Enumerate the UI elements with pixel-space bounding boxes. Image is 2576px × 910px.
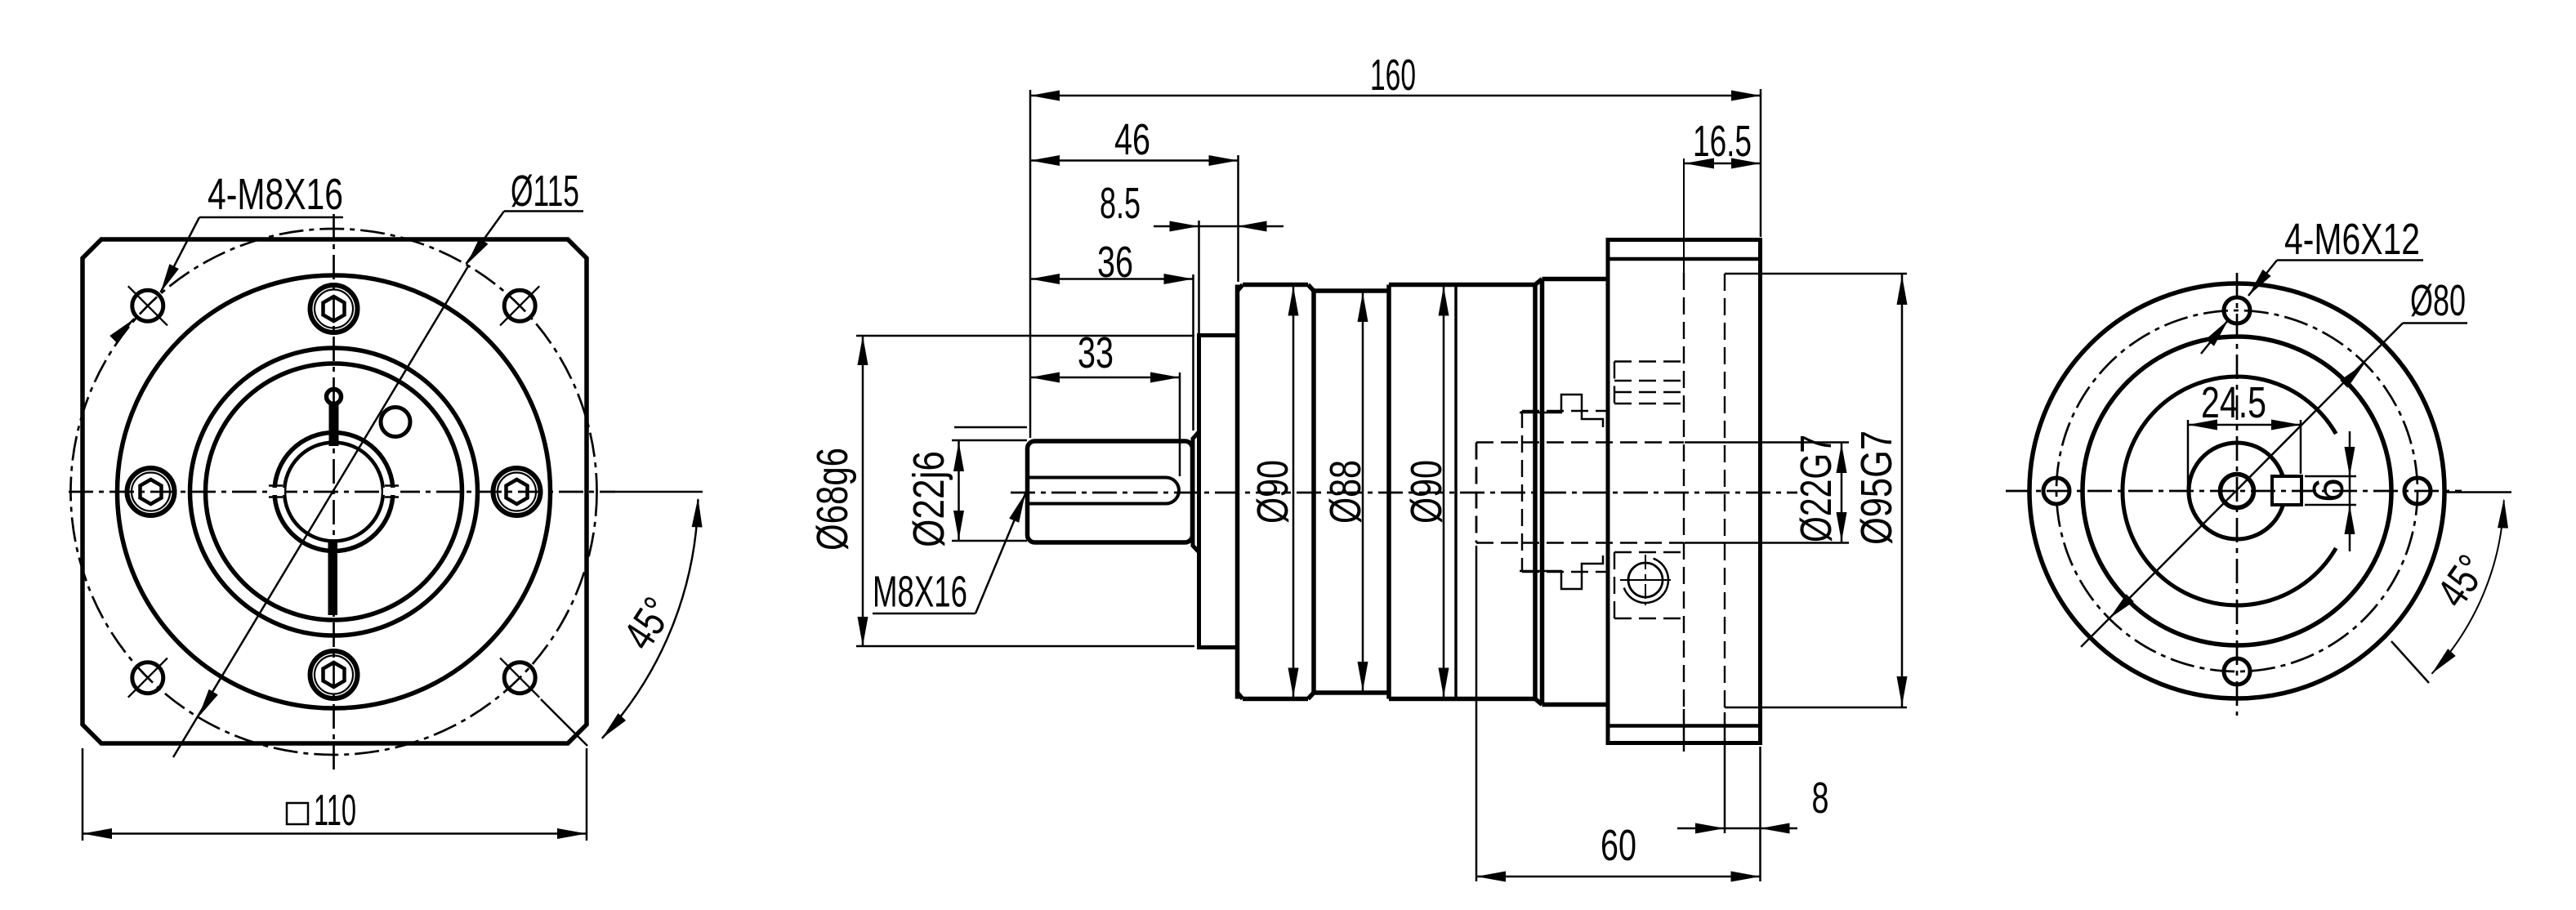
front view vertical centerline bbox=[333, 214, 335, 769]
dim 8 ext left bbox=[1724, 712, 1726, 833]
flange circle bbox=[190, 348, 478, 636]
dim 8.5 ext left bbox=[1198, 221, 1200, 333]
front view square flange outline bbox=[83, 239, 587, 743]
45deg right arrow top bbox=[2498, 498, 2508, 528]
rear keyway square bbox=[2272, 476, 2301, 505]
rear flange outline bbox=[1608, 240, 1761, 743]
shaft keyway round end bbox=[1166, 478, 1179, 504]
side view axis centerline bbox=[1011, 492, 1797, 494]
right clamp notch lines bbox=[385, 484, 399, 487]
hidden bore line bottom bbox=[1522, 542, 1684, 543]
M6 hole S bbox=[2224, 658, 2250, 685]
svg-text:6: 6 bbox=[2304, 478, 2353, 502]
dim 33 ext right bbox=[1179, 372, 1181, 476]
dim phi22 ext top bbox=[952, 439, 1027, 442]
section step line top bbox=[1520, 395, 1603, 427]
square symbol bbox=[287, 803, 308, 824]
rear circle phi50 (broken at keyway side) bbox=[2123, 377, 2336, 605]
section step line bottom bbox=[1520, 555, 1603, 589]
hex socket screw S bbox=[310, 651, 358, 698]
rear outer circle bbox=[2029, 283, 2444, 698]
bolt circle phi115 (dash-dot) bbox=[71, 229, 597, 755]
svg-text:Ø68g6: Ø68g6 bbox=[808, 448, 857, 551]
dim 110 arrow left bbox=[83, 828, 112, 839]
recess line bottom bbox=[1725, 707, 1907, 709]
dim 160 line bbox=[1030, 95, 1761, 97]
4-M6X12 leader bbox=[2248, 261, 2277, 297]
ring section bottom bbox=[1542, 703, 1609, 707]
M8 tapped hole bottom-right bbox=[504, 662, 535, 694]
clamp slot bottom (filled) bbox=[328, 542, 338, 615]
clamp screw thread arc bbox=[1624, 559, 1668, 603]
hidden slot lines bottom bbox=[1614, 551, 1684, 553]
45deg right arrow bottom bbox=[2431, 649, 2455, 674]
body section 1 phi90 top bbox=[1243, 283, 1308, 288]
dim phi22G7 line bbox=[1841, 443, 1843, 543]
body section 2 phi90 bottom bbox=[1389, 697, 1535, 702]
45deg right dim arc bbox=[2431, 500, 2503, 673]
dim 160 ext left bbox=[1029, 90, 1032, 438]
4-M8X16 second arrow tail bbox=[121, 319, 134, 332]
svg-text:160: 160 bbox=[1370, 51, 1416, 100]
4-M8X16 arrow at hole bbox=[161, 264, 179, 292]
shaft shoulder ring bbox=[1193, 432, 1199, 553]
dim 16.5 line bbox=[1685, 163, 1761, 165]
hidden recess bottom vertical bbox=[1724, 274, 1726, 707]
dim 24.5 ext left bbox=[2187, 420, 2190, 488]
dim phi22 line bbox=[958, 440, 960, 541]
svg-text:Ø88: Ø88 bbox=[1321, 460, 1370, 524]
left clamp notch gap bbox=[267, 488, 284, 495]
svg-text:Ø95G7: Ø95G7 bbox=[1852, 430, 1901, 545]
dim phi22 ext bottom bbox=[952, 540, 1027, 542]
phi115 dim arrow lower bbox=[199, 689, 218, 717]
step chamfer 1 bottom bbox=[1308, 693, 1314, 699]
svg-text:4-M8X16: 4-M8X16 bbox=[208, 170, 343, 219]
45deg right ext radial bbox=[2391, 641, 2429, 683]
45deg arc arrow top bbox=[692, 497, 703, 527]
step face 2 bbox=[1386, 285, 1391, 699]
dim 60 line bbox=[1476, 876, 1761, 878]
45deg ext line radial bbox=[541, 699, 587, 746]
dim 36 line bbox=[1030, 278, 1194, 280]
dim 60 ext right bbox=[1759, 747, 1761, 881]
clamp slot top (filled) bbox=[329, 404, 339, 446]
gearbox front face bbox=[1235, 285, 1240, 699]
body groove phi88 top bbox=[1314, 288, 1389, 293]
right clamp notch gap bbox=[383, 488, 400, 495]
hidden collar bottom bbox=[1522, 571, 1608, 573]
hidden hub top bbox=[1476, 441, 1522, 443]
4-M6X12 arrow bbox=[2248, 270, 2271, 296]
hex socket screw N bbox=[310, 285, 358, 332]
4-M6X12 underline bbox=[2277, 259, 2423, 261]
phi80 diameter dim line bbox=[2081, 323, 2403, 647]
dim 6 ext bottom bbox=[2305, 504, 2356, 506]
M8 tapped hole top-left bbox=[132, 290, 163, 321]
rear center hole bbox=[2221, 475, 2254, 508]
rear circle phi68 bbox=[2083, 337, 2391, 645]
output shaft phi22 bbox=[1028, 441, 1193, 542]
hidden hub bottom bbox=[1476, 542, 1522, 543]
dim 16.5 arrows bbox=[1685, 158, 1714, 169]
dim 46 ext right bbox=[1237, 155, 1239, 282]
phi80 arrow lower bbox=[2109, 594, 2134, 618]
dim phi22G7 arrows bbox=[1837, 444, 1847, 473]
45deg arc arrow bottom bbox=[602, 713, 626, 738]
hidden collar vertical bbox=[1521, 411, 1523, 572]
dim phi68 arrows bbox=[858, 336, 868, 365]
dim phi22G7 ext bottom bbox=[1685, 542, 1849, 544]
ring section face bbox=[1540, 279, 1545, 705]
4-M8X16 second arrow bbox=[109, 319, 134, 343]
clamp screw hole bbox=[381, 408, 410, 437]
M6 hole N bbox=[2224, 297, 2250, 323]
hex socket screw E bbox=[493, 468, 541, 515]
hidden bore line top bbox=[1522, 441, 1684, 443]
dim 24.5 ext right bbox=[2300, 420, 2302, 474]
output bore inner circle bbox=[284, 443, 383, 542]
ring chamfer top bbox=[1535, 279, 1542, 285]
dim 8 arrows bbox=[1695, 823, 1725, 834]
rear view horizontal centerline bbox=[2006, 490, 2462, 493]
45deg ext line horizontal bbox=[615, 491, 703, 493]
dim 8.5 line bbox=[1154, 225, 1284, 228]
dim &#216;88 arrows bbox=[1358, 292, 1368, 322]
rear view vertical centerline bbox=[2236, 273, 2239, 716]
M6 hole W bbox=[2043, 478, 2069, 504]
front view horizontal centerline bbox=[69, 491, 615, 493]
rear flange chamfer line top bbox=[1608, 257, 1761, 261]
hex socket screw W bbox=[127, 468, 175, 515]
phi115 diameter dim line bbox=[173, 266, 468, 757]
svg-text:36: 36 bbox=[1097, 238, 1133, 287]
hidden slot verticals bottom bbox=[1614, 552, 1615, 618]
phi80 underline bbox=[2403, 322, 2467, 324]
ring section top bbox=[1542, 277, 1609, 282]
4-M8X16 label underline bbox=[199, 216, 343, 219]
svg-text:Ø22G7: Ø22G7 bbox=[1792, 435, 1841, 542]
dim 8.5 arrows bbox=[1170, 221, 1199, 232]
dim 24.5 line bbox=[2188, 424, 2301, 426]
hidden slot verticals top bbox=[1614, 362, 1615, 404]
dim 60 ext left bbox=[1476, 546, 1478, 881]
body section 1 phi90 bottom bbox=[1243, 697, 1308, 702]
dim 110 ext line left bbox=[82, 748, 84, 841]
4-M6X12 second arrow bbox=[2206, 320, 2229, 346]
dim 110 ext line right bbox=[586, 748, 588, 841]
svg-text:16.5: 16.5 bbox=[1693, 117, 1752, 166]
dim phi22 ext aux bbox=[954, 426, 1027, 429]
dim 8 line bbox=[1677, 827, 1797, 830]
front spigot phi68g6 bbox=[1199, 336, 1238, 648]
dim 110 arrow right bbox=[557, 828, 587, 839]
dim 160 arrows bbox=[1030, 91, 1060, 101]
M8X16 arrow bbox=[1009, 493, 1025, 523]
M6 hole E bbox=[2404, 478, 2431, 504]
dim 36 ext right bbox=[1192, 274, 1194, 430]
motor face line bbox=[1683, 158, 1685, 273]
dim 46 arrows bbox=[1030, 155, 1060, 166]
M8X16 leader bbox=[975, 494, 1025, 614]
phi115 dim arrow upper bbox=[467, 238, 488, 265]
pin hole above slot bbox=[327, 390, 342, 404]
outer housing circle phi95 bbox=[118, 275, 551, 708]
M8 tapped hole top-right bbox=[504, 290, 535, 321]
dim &#216;88 line bbox=[1362, 291, 1364, 693]
rear bolt circle phi80 (dash-dot) bbox=[2056, 310, 2418, 671]
svg-text:Ø115: Ø115 bbox=[511, 167, 579, 216]
dim &#216;90 arrows bbox=[1439, 287, 1449, 316]
hidden hub face vertical bbox=[1476, 443, 1478, 543]
rear hub circle (broken at keyway) bbox=[2189, 443, 2283, 539]
step chamfer 1 top bbox=[1308, 285, 1314, 292]
phi80 arrow upper bbox=[2340, 364, 2364, 388]
phi115 leader bend bbox=[467, 212, 505, 265]
dim 46 line bbox=[1030, 159, 1239, 162]
clamp screw crosshair bbox=[1620, 579, 1671, 581]
shaft keyway top line bbox=[1029, 476, 1166, 480]
svg-text:60: 60 bbox=[1601, 821, 1636, 870]
4-M6X12 second arrow tail bbox=[2201, 320, 2229, 355]
svg-text:8.5: 8.5 bbox=[1100, 179, 1141, 228]
dim &#216;90 line bbox=[1292, 285, 1295, 699]
dim 6 line bbox=[2349, 431, 2351, 551]
svg-text:Ø90: Ø90 bbox=[1248, 460, 1297, 524]
dim &#216;90 arrows bbox=[1288, 287, 1299, 316]
svg-text:Ø90: Ø90 bbox=[1402, 460, 1451, 524]
clamp collar circle bbox=[206, 364, 462, 620]
svg-text:46: 46 bbox=[1114, 115, 1150, 164]
left clamp notch lines bbox=[269, 484, 283, 487]
body section 2 phi90 top bbox=[1389, 283, 1535, 288]
dim phi68 line bbox=[862, 336, 864, 646]
phi115 label underline bbox=[504, 210, 583, 212]
clamp screw section circle bbox=[1628, 563, 1663, 597]
hidden collar top bbox=[1522, 410, 1608, 412]
M8X16 underline bbox=[873, 613, 975, 615]
body joint line bbox=[1454, 285, 1458, 699]
dim 24.5 arrows bbox=[2188, 420, 2217, 430]
45deg dim arc bbox=[602, 499, 699, 738]
ring chamfer bottom bbox=[1535, 699, 1542, 705]
body end face bbox=[1533, 285, 1538, 699]
dim 33 line bbox=[1030, 377, 1180, 379]
dim phi95G7 line bbox=[1901, 274, 1904, 707]
svg-text:Ø80: Ø80 bbox=[2410, 276, 2466, 325]
dim phi95G7 arrows bbox=[1897, 275, 1908, 305]
recess line top bbox=[1725, 273, 1907, 275]
dim 60 arrows bbox=[1476, 872, 1506, 882]
svg-text:M8X16: M8X16 bbox=[873, 568, 967, 617]
body groove phi88 bottom bbox=[1314, 690, 1389, 695]
dim 160 ext right bbox=[1760, 89, 1762, 237]
dim phi68 ext top bbox=[856, 335, 1194, 337]
dim 36 arrows bbox=[1030, 274, 1060, 284]
dim 6 arrows bbox=[2345, 447, 2355, 476]
dim phi68 ext bottom bbox=[856, 645, 1194, 648]
45deg right ext horizontal bbox=[2446, 491, 2511, 493]
dim 6 ext top bbox=[2305, 475, 2356, 478]
svg-text:4-M6X12: 4-M6X12 bbox=[2284, 215, 2420, 264]
dim &#216;90 line bbox=[1443, 285, 1445, 699]
dim phi22G7 ext top bbox=[1685, 441, 1849, 444]
svg-text:8: 8 bbox=[1812, 774, 1829, 823]
svg-text:Ø22j6: Ø22j6 bbox=[904, 451, 953, 547]
dim 110 line bbox=[83, 832, 587, 835]
shaft keyway bottom line bbox=[1029, 502, 1166, 506]
dim phi22 arrows bbox=[953, 442, 964, 471]
output bore outer circle bbox=[275, 433, 393, 551]
step face 1 bbox=[1311, 291, 1316, 693]
M8 tapped hole bottom-left bbox=[132, 662, 163, 694]
svg-text:24.5: 24.5 bbox=[2201, 378, 2266, 427]
dim 33 arrows bbox=[1030, 372, 1060, 383]
svg-text:110: 110 bbox=[314, 786, 356, 835]
rear flange chamfer line bottom bbox=[1608, 724, 1761, 728]
hidden slot lines top bbox=[1614, 360, 1684, 362]
4-M8X16 leader bbox=[161, 217, 200, 292]
